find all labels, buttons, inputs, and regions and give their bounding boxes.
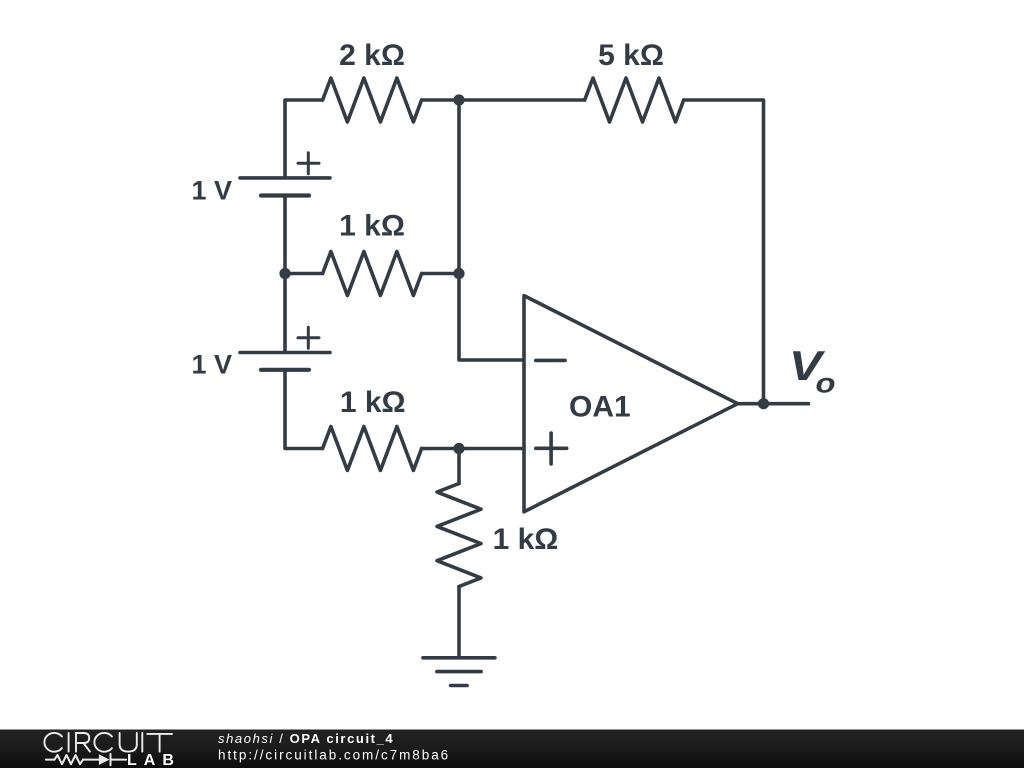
svg-text:LAB: LAB bbox=[127, 752, 181, 768]
svg-text:1 V: 1 V bbox=[191, 175, 232, 205]
svg-text:2 kΩ: 2 kΩ bbox=[339, 39, 405, 72]
svg-text:shaohsi / OPA circuit_4: shaohsi / OPA circuit_4 bbox=[218, 731, 394, 746]
svg-text:1 V: 1 V bbox=[191, 349, 232, 379]
svg-text:OA1: OA1 bbox=[569, 391, 631, 424]
svg-text:5 kΩ: 5 kΩ bbox=[598, 39, 664, 72]
svg-text:1 kΩ: 1 kΩ bbox=[340, 386, 406, 419]
svg-text:1 kΩ: 1 kΩ bbox=[493, 523, 559, 556]
svg-text:1 kΩ: 1 kΩ bbox=[339, 210, 405, 243]
svg-text:o: o bbox=[816, 368, 836, 399]
svg-text:http://circuitlab.com/c7m8ba6: http://circuitlab.com/c7m8ba6 bbox=[218, 747, 450, 762]
